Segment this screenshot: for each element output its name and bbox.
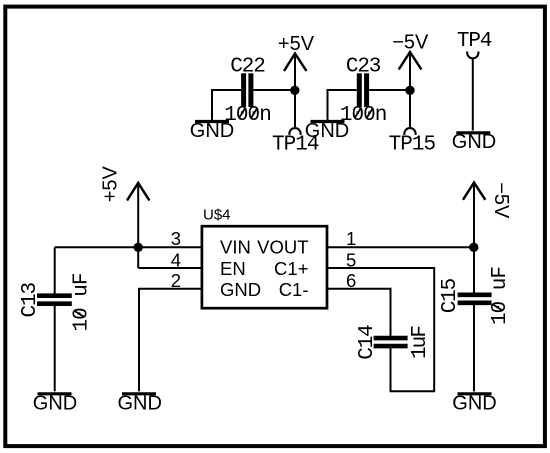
- wire C13 top: [54, 247, 56, 293]
- value 100n (C23): [340, 104, 388, 127]
- wire pin 6 to C14 top: [327, 289, 391, 336]
- svg-text:GND: GND: [452, 393, 496, 415]
- ground GND (C23): [305, 120, 349, 142]
- svg-text:TP15: TP15: [389, 133, 437, 156]
- svg-text:EN: EN: [220, 258, 246, 279]
- test point TP4: [467, 52, 478, 59]
- power +5V (left): [127, 183, 149, 201]
- svg-text:C23: C23: [346, 56, 382, 79]
- svg-text:C15: C15: [439, 278, 462, 314]
- svg-text:C1-: C1-: [279, 279, 309, 300]
- wire -5V to TP15: [409, 52, 411, 128]
- svg-text:+5V: +5V: [278, 33, 315, 55]
- svg-text:+5V: +5V: [100, 165, 122, 202]
- IC U$4: [202, 226, 327, 308]
- wire GND to C23: [328, 90, 357, 121]
- svg-text:TP4: TP4: [457, 30, 493, 53]
- junction +5V/C22: [290, 86, 299, 95]
- power +5V (top): [284, 54, 307, 72]
- junction -5V/C23: [405, 86, 414, 95]
- power -5V (right): [463, 183, 485, 200]
- test point TP14: [289, 128, 300, 135]
- ground GND (TP4): [452, 131, 496, 153]
- wire C15 to GND: [473, 305, 475, 392]
- value 10 uF (C13): [71, 273, 94, 332]
- svg-text:−5V: −5V: [490, 182, 512, 219]
- svg-text:10 uF: 10 uF: [71, 273, 94, 332]
- value 100n (C22): [224, 104, 271, 127]
- ground GND (C13): [33, 393, 77, 415]
- svg-text:10 uF: 10 uF: [489, 266, 512, 325]
- wire pin 3 net: [55, 246, 202, 248]
- svg-text:GND: GND: [33, 393, 77, 415]
- svg-text:VIN: VIN: [220, 237, 251, 258]
- capacitor C13: [37, 296, 72, 304]
- svg-text:VOUT: VOUT: [257, 237, 308, 258]
- svg-text:3: 3: [171, 228, 181, 249]
- junction +5V/pin 3: [134, 243, 143, 252]
- wire +5V to pins 3,4: [137, 183, 139, 268]
- capacitor C22: [244, 73, 251, 107]
- junction -5V/pin 1: [469, 243, 478, 252]
- svg-text:GND: GND: [190, 120, 234, 142]
- wire pin 2 to GND: [139, 289, 202, 392]
- svg-text:2: 2: [171, 270, 181, 291]
- wire pin 4: [138, 267, 202, 269]
- svg-text:1uF: 1uF: [409, 325, 432, 359]
- svg-text:GND: GND: [220, 279, 261, 300]
- ground GND (C22): [190, 120, 234, 142]
- wire GND to C22: [212, 90, 241, 121]
- ground GND (C15): [452, 393, 496, 415]
- svg-text:U$4: U$4: [203, 207, 231, 224]
- capacitor C14: [374, 338, 408, 346]
- wire TP4 to GND: [472, 58, 474, 130]
- svg-text:GND: GND: [305, 120, 349, 142]
- wire pin 1 to -5V net: [327, 246, 474, 248]
- wire pin 5 to C14 bottom: [327, 268, 434, 391]
- wire C22 to +5V net: [254, 89, 295, 91]
- test point TP15: [404, 128, 415, 135]
- svg-text:C13: C13: [19, 282, 42, 318]
- svg-text:−5V: −5V: [392, 32, 429, 54]
- value 10 uF (C15): [489, 266, 512, 325]
- wire +5V to TP14: [294, 54, 296, 128]
- svg-text:4: 4: [171, 249, 181, 270]
- capacitor C15: [458, 295, 492, 303]
- svg-text:GND: GND: [452, 131, 496, 153]
- power -5V (top): [399, 52, 422, 70]
- wire -5V to C15: [473, 183, 475, 293]
- svg-text:C22: C22: [230, 56, 265, 79]
- svg-text:C1+: C1+: [274, 258, 308, 279]
- wire C13 to GND: [54, 306, 56, 392]
- svg-text:1: 1: [346, 228, 356, 249]
- capacitor C23: [359, 73, 366, 107]
- svg-text:GND: GND: [117, 393, 161, 415]
- wire C23 to -5V net: [369, 89, 410, 91]
- svg-text:C14: C14: [356, 324, 379, 360]
- ground GND (pin 2): [117, 393, 161, 415]
